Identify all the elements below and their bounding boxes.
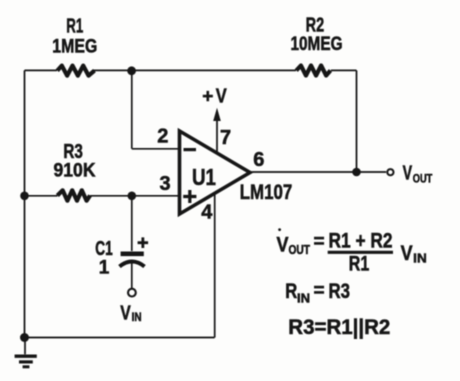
wire: bottom rail [25, 337, 215, 339]
svg-text:IN: IN [413, 251, 427, 266]
svg-text:V: V [403, 162, 413, 184]
svg-text:=: = [314, 231, 325, 252]
resistor R3 label [54, 141, 96, 182]
wire: right drop from R2 to output node [356, 70, 358, 172]
node: bottom-left junction [20, 333, 29, 342]
svg-text:V: V [120, 302, 131, 324]
pin 7 wire and +V arrow [213, 108, 221, 154]
equation 1: VOUT = (R1+R2)/R1 VIN [277, 228, 427, 275]
capacitor C1 top plate [121, 252, 144, 257]
svg-text:U1: U1 [192, 164, 216, 190]
svg-text:OUT: OUT [413, 172, 433, 186]
svg-text:+: + [202, 87, 213, 108]
svg-text:R: R [285, 280, 297, 303]
wire: output row [250, 171, 386, 173]
wire: C1 branch upper [131, 196, 133, 251]
svg-text:3: 3 [159, 173, 170, 195]
wire: pin 3 row right segment [90, 195, 180, 197]
wire: pin 3 row left segment [25, 195, 58, 197]
svg-text:V: V [401, 242, 413, 265]
svg-text:R3=R1||R2: R3=R1||R2 [288, 316, 390, 339]
capacitor C1 label [95, 238, 113, 279]
wire: pin 2 branch vertical [131, 70, 133, 148]
op-amp inverting input minus sign [184, 148, 197, 151]
resistor R2 label [291, 15, 343, 55]
capacitor C1 curved plate [120, 262, 145, 267]
resistor R3 [57, 190, 90, 200]
wire: pin 2 branch horizontal [132, 148, 180, 150]
resistor R1 [57, 66, 94, 76]
svg-text:7: 7 [220, 127, 231, 149]
node: junction left rail / R3 row [20, 192, 29, 201]
wire: top rail middle segment [92, 69, 296, 71]
svg-text:1MEG: 1MEG [52, 36, 97, 57]
wire: left rail [24, 70, 26, 337]
svg-text:V: V [216, 86, 228, 108]
ground symbol [15, 338, 37, 367]
svg-text:IN: IN [132, 310, 142, 324]
svg-text:10MEG: 10MEG [291, 34, 343, 55]
svg-text:V: V [277, 234, 289, 257]
svg-text:R1 + R2: R1 + R2 [329, 229, 393, 252]
op-amp non-inverting input plus sign [183, 190, 196, 203]
wire: top rail right segment [331, 69, 357, 71]
svg-text:IN: IN [297, 291, 310, 306]
svg-text:R1: R1 [349, 253, 370, 276]
svg-text:=: = [314, 280, 325, 301]
resistor R1 label [52, 16, 97, 58]
VIN terminal label [120, 302, 141, 324]
op-amp U1 triangle [180, 131, 251, 214]
output terminal circle [387, 169, 393, 175]
svg-text:LM107: LM107 [240, 181, 293, 204]
svg-text:R3: R3 [329, 280, 351, 303]
node: output junction [352, 168, 361, 177]
svg-text:2: 2 [157, 126, 168, 148]
node: feedback junction at top rail [127, 66, 136, 75]
equation 2: RIN = R3 [285, 280, 350, 305]
svg-text:4: 4 [201, 202, 213, 224]
svg-text:OUT: OUT [289, 242, 311, 257]
svg-text:910K: 910K [54, 160, 96, 181]
wire: C1 branch lower [131, 263, 133, 288]
input terminal circle [128, 289, 136, 297]
+V supply label [202, 86, 227, 108]
svg-text:1: 1 [99, 257, 110, 278]
svg-text:R1: R1 [66, 16, 83, 38]
node: junction R3 / C1 branch [128, 192, 137, 201]
wire: top rail left segment [25, 69, 58, 71]
svg-text:6: 6 [253, 149, 264, 171]
pin 4 wire [214, 193, 216, 338]
resistor R2 [296, 66, 330, 76]
capacitor C1 polarity plus sign [138, 237, 149, 248]
VOUT terminal label [403, 162, 433, 185]
